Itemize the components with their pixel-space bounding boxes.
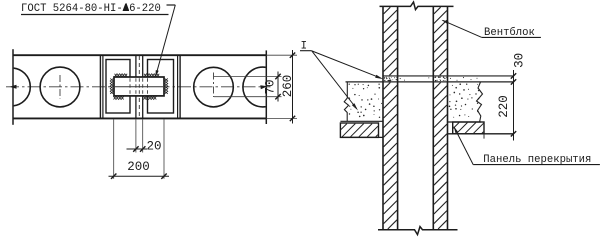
left panel core-end double line a (99, 55, 101, 118)
dim 20 extension left (135, 120, 137, 153)
void circle 1 (cut at left end) (0, 68, 30, 106)
mortar stipple left wall (384, 78, 385, 79)
svg-text:200: 200 (127, 160, 150, 174)
left wall hatch lower (384, 83, 391, 90)
svg-text:260: 260 (281, 75, 295, 98)
left slab break edge (344, 82, 348, 121)
right dim line (513, 70, 515, 141)
left panel core-end double line b (102, 55, 104, 118)
leader shelf (167, 4, 176, 6)
mortar stipple right wall (433, 76, 436, 79)
left floor panel hatch (341, 124, 347, 130)
slab right end line (265, 50, 267, 124)
right wall right edge (447, 6, 449, 229)
left panel end face line (135, 55, 137, 118)
left panel bottom line (340, 136, 383, 138)
dim 260 extension top (266, 54, 297, 56)
left recess box (106, 60, 130, 114)
dim 200 extension left (113, 120, 115, 179)
designation underline (21, 14, 169, 16)
dim 70 line (277, 72, 279, 102)
svg-text:30: 30 (512, 53, 526, 68)
dim 20 line (127, 148, 148, 150)
void circle 2 (40, 67, 80, 107)
svg-text:20: 20 (147, 139, 162, 153)
joint centerline dashed (138, 56, 140, 118)
hidden lines through plate (129, 78, 131, 95)
centerline through plate (115, 86, 163, 88)
right recess box (148, 60, 174, 114)
section leader 1 (312, 51, 381, 78)
centerline right arrow (260, 85, 267, 89)
right wall hatch upper (434, 7, 441, 14)
svg-text:70: 70 (264, 79, 278, 94)
dim 70 extension top (214, 76, 282, 78)
weld top-left (115, 74, 128, 77)
dim 70 extension bottom (214, 96, 282, 98)
slab bottom edge line (13, 117, 266, 119)
right floor panel rect (453, 122, 484, 134)
circle 2 vertical centerline (59, 75, 61, 99)
centerline left arrow (10, 85, 17, 89)
right fill bottom line (448, 121, 481, 123)
tie plate (114, 77, 164, 96)
svg-text:Панель перекрытия: Панель перекрытия (483, 154, 591, 166)
left wall left edge (382, 6, 384, 229)
slab left end line (12, 49, 14, 125)
svg-text:ГОСТ 5264-80-НI-Δ6-220: ГОСТ 5264-80-НI-Δ6-220 (21, 3, 161, 15)
left floor panel rect (340, 123, 378, 137)
mortar joint bottom / panel top line (346, 81, 514, 83)
circle 3 vertical centerline (213, 73, 215, 98)
right concrete fill stipple (452, 85, 453, 86)
right panel bottom line with extension (448, 133, 514, 135)
top cut line with break (380, 2, 454, 10)
void circle 3 (194, 67, 234, 107)
right wall hatch lower (434, 83, 441, 90)
weld left end (110, 79, 113, 94)
void circle 4 (cut at right end) (243, 67, 283, 107)
left fill bottom line (340, 120, 383, 122)
dim 20 extension right (142, 120, 144, 153)
right panel core-end double line a (177, 55, 179, 118)
dim 200 line (109, 175, 170, 177)
weld top-right (144, 74, 159, 77)
bottom cut line with break (378, 227, 458, 235)
weld bottom-left (114, 96, 124, 99)
dim 260 line (292, 50, 294, 124)
weld bottom-right (144, 96, 157, 99)
sparse mortar specks (400, 77, 478, 81)
left concrete fill stipple (349, 84, 350, 85)
right slab break edge (477, 82, 483, 122)
svg-text:Вентблок: Вентблок (484, 26, 535, 39)
leader to vent block (443, 20, 482, 37)
right wall left edge (432, 6, 434, 229)
right panel end face line (142, 55, 144, 118)
weld right end (165, 79, 168, 94)
left wall hatch upper (384, 7, 391, 14)
svg-text:220: 220 (497, 95, 511, 118)
panel edge stub (483, 134, 485, 139)
leader arrow (155, 70, 158, 77)
mortar joint top line (383, 75, 514, 77)
section leader 2 (312, 51, 357, 109)
section mark underline (300, 50, 312, 52)
weld symbol triangle (123, 3, 129, 11)
dim 260 extension bottom (266, 117, 297, 119)
horizontal centerline (6, 86, 271, 88)
left wall right edge (397, 6, 399, 229)
dim 200 extension right (163, 120, 165, 179)
leader line to weld (156, 5, 176, 76)
right panel core-end double line b (179, 55, 181, 118)
right floor panel hatch (453, 123, 459, 129)
leader to floor panel (454, 128, 473, 165)
slab top edge line (13, 54, 266, 56)
